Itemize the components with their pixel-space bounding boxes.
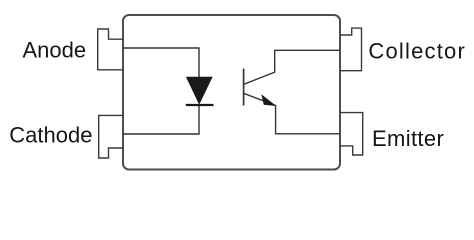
svg-text:Cathode: Cathode <box>9 123 92 148</box>
pin tab: anode lead (pin 1) <box>98 29 123 70</box>
LED D1 cathode bar <box>186 104 214 106</box>
optocoupler package body U1 <box>123 15 340 170</box>
wire: anode pin to LED anode <box>123 48 199 77</box>
phototransistor Q1 base bar <box>243 69 245 106</box>
pin tab: emitter lead (pin 3) <box>340 113 363 155</box>
svg-text:Emitter: Emitter <box>372 126 444 151</box>
LED D1 triangle (anode) <box>187 77 213 104</box>
svg-text:Anode: Anode <box>23 38 87 63</box>
wire: LED cathode to cathode pin <box>123 106 199 134</box>
svg-text:Collector: Collector <box>368 39 466 64</box>
wire: emitter of Q1 to emitter pin <box>244 93 340 134</box>
emitter arrowhead of Q1 <box>261 94 276 106</box>
pin tab: cathode lead (pin 2) <box>99 115 123 158</box>
wire: collector of Q1 to collector pin <box>244 50 340 84</box>
pin tab: collector lead (pin 4) <box>340 28 362 71</box>
